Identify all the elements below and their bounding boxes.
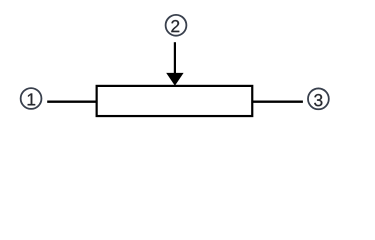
pin 2 terminal circle <box>166 15 187 36</box>
wiper wire (vertical) <box>174 42 176 78</box>
wire pin 1 to body <box>47 101 96 103</box>
pin 3 label "3" <box>314 94 322 106</box>
potentiometer schematic <box>0 0 375 139</box>
wire body to pin 3 <box>252 101 303 103</box>
wiper arrowhead <box>166 73 183 86</box>
pin 3 terminal circle <box>308 88 329 109</box>
pin 1 label "1" <box>28 93 35 105</box>
pin 1 terminal circle <box>21 88 42 109</box>
pin 2 label "2" <box>171 20 179 32</box>
potentiometer body <box>97 86 253 116</box>
